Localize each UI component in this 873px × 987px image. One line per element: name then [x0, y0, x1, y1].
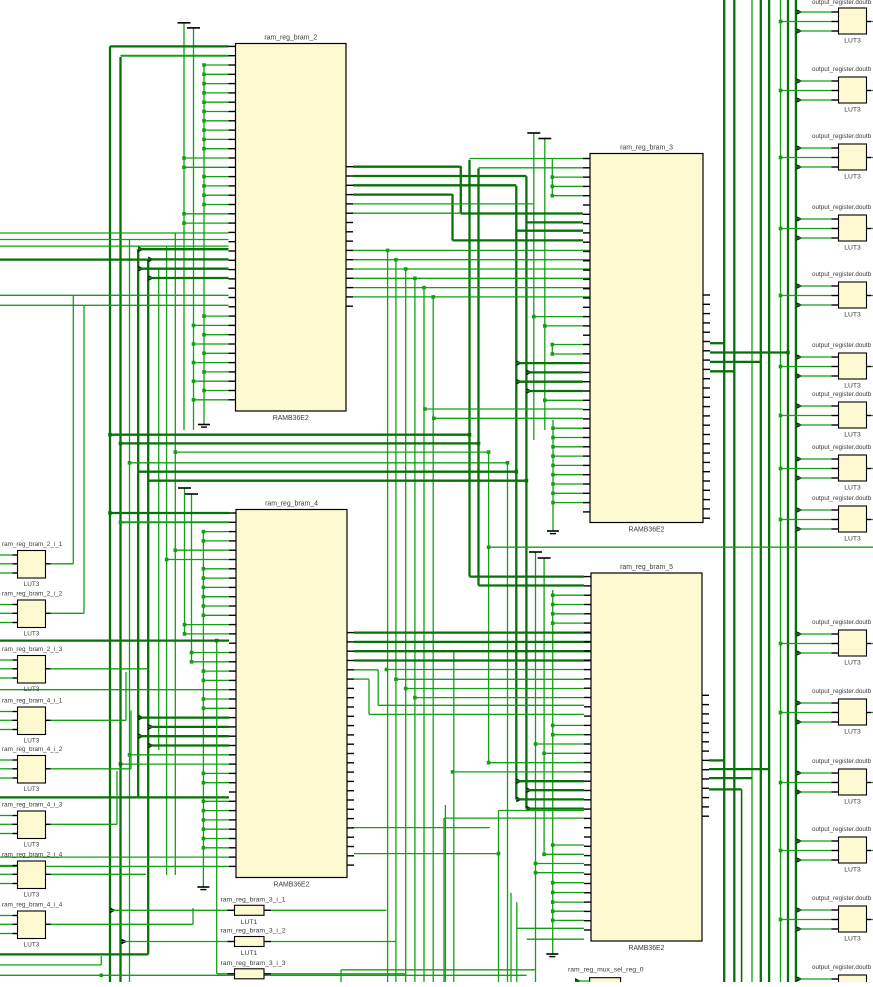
svg-text:output_register.doutb: output_register.doutb	[812, 688, 872, 695]
svg-text:LUT3: LUT3	[844, 536, 861, 543]
svg-text:LUT3: LUT3	[24, 738, 40, 745]
svg-text:ram_reg_bram_2_i_4: ram_reg_bram_2_i_4	[2, 852, 63, 859]
svg-text:LUT3: LUT3	[844, 312, 861, 319]
svg-text:LUT3: LUT3	[24, 892, 40, 899]
svg-text:LUT3: LUT3	[844, 245, 861, 252]
svg-text:output_register.doutb: output_register.doutb	[812, 758, 872, 765]
svg-text:ram_reg_bram_3_i_1: ram_reg_bram_3_i_1	[221, 896, 286, 903]
svg-text:output_register.doutb: output_register.doutb	[812, 964, 872, 971]
svg-text:ram_reg_bram_5: ram_reg_bram_5	[620, 564, 673, 571]
svg-text:output_register.doutb: output_register.doutb	[812, 495, 872, 502]
svg-text:output_register.doutb: output_register.doutb	[812, 895, 872, 902]
svg-text:RAMB36E2: RAMB36E2	[273, 882, 309, 889]
svg-text:ram_reg_bram_4_i_1: ram_reg_bram_4_i_1	[2, 698, 63, 705]
svg-text:LUT3: LUT3	[844, 867, 861, 874]
svg-text:output_register.doutb: output_register.doutb	[812, 0, 872, 6]
svg-text:ram_reg_bram_4_i_3: ram_reg_bram_4_i_3	[2, 802, 63, 809]
svg-text:output_register.doutb: output_register.doutb	[812, 271, 872, 278]
svg-text:output_register.doutb: output_register.doutb	[812, 66, 872, 73]
svg-text:LUT3: LUT3	[844, 936, 861, 943]
svg-text:LUT3: LUT3	[24, 581, 40, 588]
svg-text:LUT1: LUT1	[241, 950, 258, 957]
svg-text:RAMB36E2: RAMB36E2	[628, 945, 664, 952]
svg-text:output_register.doutb: output_register.doutb	[812, 133, 872, 140]
svg-text:LUT3: LUT3	[844, 432, 861, 439]
svg-text:ram_reg_bram_4_i_4: ram_reg_bram_4_i_4	[2, 902, 63, 909]
svg-text:LUT3: LUT3	[844, 174, 861, 181]
svg-text:output_register.doutb: output_register.doutb	[812, 619, 872, 626]
svg-text:LUT3: LUT3	[844, 38, 861, 45]
svg-text:ram_reg_bram_3: ram_reg_bram_3	[620, 145, 673, 152]
svg-text:RAMB36E2: RAMB36E2	[628, 527, 664, 534]
svg-text:ram_reg_bram_4_i_2: ram_reg_bram_4_i_2	[2, 746, 63, 753]
svg-text:output_register.doutb: output_register.doutb	[812, 826, 872, 833]
svg-text:LUT3: LUT3	[24, 686, 40, 693]
svg-text:LUT3: LUT3	[844, 383, 861, 390]
svg-text:RAMB36E2: RAMB36E2	[273, 415, 309, 422]
svg-text:output_register.doutb: output_register.doutb	[812, 204, 872, 211]
svg-text:ram_reg_bram_2_i_2: ram_reg_bram_2_i_2	[2, 591, 63, 598]
svg-text:LUT3: LUT3	[844, 729, 861, 736]
svg-text:output_register.doutb: output_register.doutb	[812, 342, 872, 349]
svg-text:ram_reg_bram_3_i_3: ram_reg_bram_3_i_3	[221, 960, 286, 967]
svg-text:ram_reg_bram_4: ram_reg_bram_4	[265, 501, 318, 508]
svg-text:ram_reg_bram_2_i_1: ram_reg_bram_2_i_1	[2, 541, 63, 548]
svg-text:LUT3: LUT3	[24, 786, 40, 793]
svg-text:LUT3: LUT3	[24, 631, 40, 638]
svg-text:LUT3: LUT3	[24, 842, 40, 849]
svg-text:LUT3: LUT3	[844, 107, 861, 114]
svg-text:output_register.doutb: output_register.doutb	[812, 444, 872, 451]
svg-text:LUT3: LUT3	[844, 660, 861, 667]
svg-text:ram_reg_mux_sel_reg_0: ram_reg_mux_sel_reg_0	[568, 967, 644, 974]
svg-text:output_register.doutb: output_register.doutb	[812, 391, 872, 398]
svg-text:ram_reg_bram_3_i_2: ram_reg_bram_3_i_2	[221, 928, 286, 935]
svg-text:LUT3: LUT3	[844, 485, 861, 492]
svg-text:ram_reg_bram_2_i_3: ram_reg_bram_2_i_3	[2, 646, 63, 653]
svg-text:LUT3: LUT3	[24, 942, 40, 949]
svg-text:ram_reg_bram_2: ram_reg_bram_2	[264, 35, 317, 42]
svg-text:LUT1: LUT1	[241, 919, 258, 926]
svg-text:LUT3: LUT3	[844, 799, 861, 806]
